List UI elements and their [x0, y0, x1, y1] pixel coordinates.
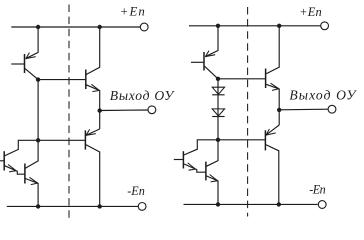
node B (left): [36, 138, 40, 142]
wire: node A to Q2 base: [38, 79, 86, 81]
svg-text:-Еп: -Еп: [127, 184, 145, 198]
wire: Q2 emitter to output node: [86, 85, 100, 111]
transistor Q3b' base bar (NPN): [205, 162, 207, 181]
dashed symmetry axis (right circuit): [247, 7, 249, 217]
wire: right +Ep rail: [189, 25, 321, 27]
transistor Q5' base bar (PNP): [264, 130, 266, 150]
wire: Q5' emitter diagonal: [266, 125, 279, 135]
wire: node B to Q5 base: [38, 139, 85, 141]
terminal output (left): [148, 106, 156, 114]
Q2' emitter arrow (NPN, outward): [271, 83, 279, 89]
node A' (right): [216, 77, 220, 81]
wire: Q1 base lead: [11, 63, 24, 65]
wire: Q5' collector to -Ep rail: [266, 145, 279, 205]
transistor Q2 base bar (NPN): [85, 70, 87, 90]
Q3a' emitter arrow (NPN, outward): [188, 163, 196, 169]
wire: Q1' collector to node A': [205, 66, 219, 79]
junction: right rail / Q3b' emitter: [216, 202, 220, 206]
Q5 emitter arrow (PNP, into bar): [86, 134, 96, 136]
node A (left): [36, 77, 40, 81]
diode VD1: [212, 87, 224, 94]
wire: Q1' base lead: [191, 61, 204, 63]
junction: left rail / Q2 collector: [98, 25, 102, 29]
wire: Q1' emitter from +Ep rail: [205, 26, 218, 57]
junction: right rail / Q2' collector: [277, 24, 281, 28]
wire: node B' to Q5' base: [218, 139, 265, 141]
terminal +Ep (left): [140, 23, 148, 31]
transistor Q2' base bar (NPN): [265, 69, 267, 89]
wire: Q2' collector to +Ep rail: [266, 26, 279, 74]
svg-text:-Еп: -Еп: [309, 182, 325, 196]
svg-text:+Еп: +Еп: [299, 5, 322, 19]
wire: node A' to Q2' base: [218, 78, 266, 80]
Q3a emitter arrow (NPN, outward): [8, 165, 16, 171]
wire: Q1 collector to node A: [25, 69, 38, 80]
wire: Q3b emitter to -Ep rail: [25, 179, 38, 207]
wire: node A down to node B: [37, 80, 39, 141]
svg-text:Выход ОУ: Выход ОУ: [110, 88, 175, 103]
wire: Q3a' collector to node B': [184, 140, 218, 155]
junction: left rail / Q1 emitter: [36, 25, 40, 29]
transistor Q3a base bar (NPN): [3, 151, 5, 170]
wire: Q3b collector to node B: [25, 140, 38, 168]
svg-text:Выход ОУ: Выход ОУ: [289, 87, 357, 102]
wire: right -Ep rail: [184, 203, 318, 205]
transistor Q1 base bar (PNP): [24, 54, 26, 73]
wire: Q3b' emitter to -Ep rail: [206, 176, 218, 205]
wire: Q3a base lead: [0, 160, 4, 162]
transistor Q5 base bar (PNP): [84, 130, 86, 149]
terminal -Ep (right): [318, 201, 326, 209]
transistor Q3a' base bar (NPN): [182, 151, 184, 168]
wire: Q5 collector to -Ep rail: [86, 145, 100, 207]
terminal output (right): [328, 105, 336, 113]
wire: left -Ep rail: [7, 205, 138, 207]
wire: Q3a collector to node B: [5, 140, 39, 156]
wire: Q3a emitter to Q3b base: [5, 166, 25, 175]
Q3b emitter arrow (NPN, outward): [30, 177, 38, 183]
terminal +Ep (right): [321, 22, 329, 30]
wire: node A' down through diodes to node B': [217, 79, 219, 140]
svg-text:+Еп: +Еп: [120, 5, 145, 19]
junction: right rail / Q5' collector: [277, 202, 281, 206]
output node (right): [277, 108, 281, 112]
wire: Q2' emitter to output node: [266, 84, 279, 110]
wire: output node down to Q5 emitter: [99, 111, 101, 129]
wire: Q2 collector to +Ep rail: [86, 27, 100, 75]
Q2 emitter arrow (NPN, outward): [91, 84, 99, 90]
output node (left): [98, 108, 102, 112]
wire: Q3a' base lead: [174, 159, 184, 161]
wire: Q1 emitter from +Ep rail: [26, 27, 38, 59]
wire: Q3b' collector to node B': [206, 140, 218, 167]
node B' (right): [216, 138, 220, 142]
junction: right rail / Q1' emitter: [216, 24, 220, 28]
wire: output to terminal (right): [279, 108, 328, 111]
wire: left +Ep rail: [11, 26, 140, 28]
Q1 emitter arrow (PNP, into bar): [26, 57, 36, 59]
Q5' emitter arrow (PNP, into bar): [266, 133, 276, 135]
dashed symmetry axis (left circuit): [68, 5, 70, 220]
junction: left rail / Q5 collector: [98, 204, 102, 208]
terminal -Ep (left): [138, 203, 146, 211]
Q3b' emitter arrow (NPN, outward): [210, 175, 218, 181]
Q1' emitter arrow (PNP, into bar): [205, 55, 215, 57]
transistor Q3b base bar (NPN): [24, 164, 26, 184]
junction: left rail / Q3b emitter: [36, 204, 40, 208]
transistor Q1' base bar (PNP): [203, 52, 205, 71]
wire: Q3a' emitter to Q3b' base: [184, 164, 206, 172]
wire: output node down to Q5' emitter: [278, 110, 280, 125]
wire: output to terminal (left): [100, 109, 148, 112]
wire: Q5 emitter diagonal: [86, 129, 100, 135]
diode VD2: [212, 109, 224, 116]
